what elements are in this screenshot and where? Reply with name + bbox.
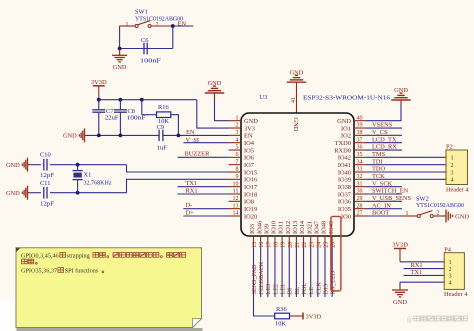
pin 18 IO10 (bottom) [271,221,280,248]
ground (C10) [6,158,29,172]
svg-text:D13: D13 [322,284,329,295]
svg-text:38: 38 [357,130,363,136]
net label TDO [366,166,444,173]
svg-text:IO7: IO7 [244,162,255,169]
wire/net LE3 (bottom col) [265,248,272,297]
svg-text:IO3: IO3 [249,224,256,234]
svg-text:39: 39 [357,123,363,129]
capacitor C6 [140,37,162,65]
pin 22 IO14 (bottom) [299,220,308,248]
pin 11 IO18 (left) [229,189,258,199]
pin 38 IO2 (right) [341,130,366,140]
net label VSENS [366,122,402,129]
svg-text:7: 7 [236,159,239,165]
svg-text:D-: D- [186,202,193,209]
svg-text:GND: GND [6,162,20,169]
wire SW1 loop [118,24,194,50]
pin 24 IO47 (bottom) [313,220,322,248]
svg-text:GND: GND [113,64,127,71]
svg-text:BOOT: BOOT [372,210,389,217]
svg-text:GPIO35,36,37: GPIO35,36,37 [21,268,57,275]
svg-text:IO13: IO13 [292,221,299,234]
svg-text:IO9: IO9 [263,224,270,234]
pin 40 GND (right) [337,115,366,125]
pin 8 IO15 (left) [229,167,258,177]
svg-text:25: 25 [324,242,330,248]
svg-text:34: 34 [357,159,363,165]
pin 15 IO3 (bottom) [249,224,258,248]
pin 20 IO12 (bottom) [285,221,294,248]
svg-text:GND: GND [455,213,469,220]
net label D- [183,202,228,209]
ground (SW2) [444,209,470,222]
svg-text:100nF: 100nF [140,58,162,65]
svg-text:IO19: IO19 [244,206,257,213]
svg-text:36: 36 [357,145,363,151]
svg-text:13: 13 [233,203,239,209]
wire/net BL (bottom col) [294,248,301,297]
svg-text:30: 30 [357,189,363,195]
svg-text:1: 1 [451,156,454,162]
svg-text:LE1: LE1 [280,284,287,295]
svg-text:24: 24 [316,242,322,248]
svg-text:15: 15 [252,242,258,248]
net label TX1 [178,180,229,187]
op-amp U3 ESP32-S3-WROOM-1U-N16 body [241,94,391,236]
svg-text:C10: C10 [40,152,51,159]
svg-text:12: 12 [233,196,239,202]
net label V_CS [366,129,402,136]
svg-text:IO21: IO21 [306,221,313,234]
capacitor C9 [157,124,168,152]
svg-text:GND: GND [6,190,20,197]
svg-text:IO6: IO6 [244,155,254,162]
svg-text:1: 1 [406,211,409,217]
pin 1 GND (left) [229,115,259,125]
pin 28 IO35 (right) [338,203,366,213]
svg-text:C9: C9 [157,124,164,131]
svg-text:U3: U3 [260,94,268,101]
capacitor C11 [40,180,54,208]
svg-text:14: 14 [233,211,239,217]
pin 14 IO20 (left) [229,211,258,221]
wire 3V3D rail [97,98,229,128]
net label TMS [366,151,444,158]
svg-text:P2: P2 [446,144,453,151]
svg-text:26: 26 [331,242,337,248]
ground (P4) [392,287,408,306]
svg-text:3V3D: 3V3D [306,313,322,320]
wire C11 row [29,179,229,194]
svg-text:12pF: 12pF [40,172,54,179]
svg-text:SPI functions: SPI functions [65,268,99,275]
svg-text:12pF: 12pF [40,201,54,208]
ground (SW1) [112,49,127,71]
net label TX1 (P4) [404,269,442,276]
svg-text:1: 1 [449,260,452,266]
pin 7 IO7 (left) [229,159,255,169]
svg-text:2: 2 [449,267,452,273]
svg-text:IO35: IO35 [338,206,351,213]
ground (EN rail) [63,128,86,142]
svg-text:GND: GND [337,118,351,125]
svg-text:BUZZER: BUZZER [185,151,211,158]
pin 29 IO36 (right) [338,196,366,206]
crystal X1 [73,165,112,193]
wire/net LE (bottom col) [308,248,315,297]
svg-text:37: 37 [357,137,363,143]
svg-text:IO10: IO10 [271,221,278,234]
svg-text:GND: GND [290,69,304,76]
net label LCD_TX [366,136,402,143]
pin 36 RXD0 (right) [334,145,366,155]
net label TCK [366,173,444,180]
pin 13 IO19 (left) [229,203,258,213]
pin 9 IO16 (left) [229,174,258,184]
power 3V3D (P4) [392,242,408,262]
svg-text:16: 16 [259,242,265,248]
svg-text:R36: R36 [276,306,287,313]
svg-text:IO14: IO14 [299,220,306,234]
wire/net CLK (bottom col) [315,248,322,297]
pin 27 IO0 (right) [341,211,366,221]
svg-text:IO18: IO18 [244,191,257,198]
svg-text:IO12: IO12 [285,221,292,234]
svg-text:IO42: IO42 [338,155,351,162]
pin 16 IO46 (bottom) [256,221,265,248]
svg-text:3: 3 [449,274,452,280]
svg-text:D+: D+ [186,209,195,216]
wire/net LE2 (bottom col) [272,248,279,297]
svg-text:3: 3 [451,170,454,176]
svg-text:RX1: RX1 [186,187,198,194]
wire P4 pin1 3V3D [400,261,442,263]
wire/net LE1 (bottom col) [280,248,287,297]
svg-text:3: 3 [236,130,239,136]
svg-text:1: 1 [236,115,239,121]
svg-text:4: 4 [451,178,454,184]
svg-text:2: 2 [451,163,454,169]
svg-text:2: 2 [156,22,159,28]
svg-text:GND: GND [208,80,222,87]
svg-text:IO36: IO36 [338,199,351,206]
svg-text:22uF: 22uF [105,115,119,122]
svg-text:TMS: TMS [372,151,386,158]
svg-text:V_USB_SENS: V_USB_SENS [372,195,412,202]
ground (pin41 top pad) [287,69,307,113]
net label SWITCH_EN [366,188,409,195]
svg-text:TX1: TX1 [186,180,198,187]
svg-text:IO41: IO41 [338,162,351,169]
ground (pin40) [366,87,411,121]
ground (pin1) [205,80,229,121]
svg-text:C11: C11 [40,180,50,187]
ground (C11) [6,186,29,200]
pin 19 IO11 (bottom) [278,221,287,248]
connector P2 Header 4 [443,144,469,194]
svg-text:100nF: 100nF [127,115,147,122]
switch SW1 [120,9,183,28]
wire/net DI (bottom col) [287,248,294,297]
pin 33 IO40 (right) [338,167,366,177]
capacitor C10 [40,152,54,179]
svg-text:22: 22 [302,242,308,248]
svg-text:strapping: strapping [67,253,90,260]
svg-text:GND: GND [244,118,258,125]
pin 12 IO8 (left) [229,196,254,206]
pin 21 IO13 (bottom) [292,221,301,248]
pin 2 3V3 (left) [229,123,256,133]
svg-text:5: 5 [236,145,239,151]
svg-text:32.768KHz: 32.768KHz [84,179,112,186]
svg-text:27: 27 [357,211,363,217]
svg-text:BL: BL [294,286,301,294]
pin 17 IO9 (bottom) [263,224,272,248]
pin 26 IO45 (bottom) [328,221,337,248]
svg-text:IO11: IO11 [278,221,285,234]
net label TDI [366,158,444,165]
svg-text:RXD0: RXD0 [334,147,351,154]
svg-text:41: 41 [291,97,297,103]
svg-text:3V3: 3V3 [244,125,255,132]
pin 6 IO6 (left) [229,152,254,162]
wire C10 row [29,163,229,172]
svg-text:CLK: CLK [315,282,322,295]
pin 30 IO37 (right) [338,189,366,199]
pin 4 IO4 (left) [229,137,255,147]
svg-text:VSENS: VSENS [372,122,393,129]
svg-text:9: 9 [236,174,239,180]
wire P4 pin4 GND [400,282,442,287]
net label RX1 [178,187,229,194]
net label AC_IN [366,202,402,209]
svg-text:POL: POL [301,283,308,295]
svg-text:35: 35 [357,152,363,158]
pin 3 EN (left) [229,130,253,140]
svg-text:DI: DI [287,288,294,295]
svg-text:LE: LE [308,287,315,295]
svg-text:IO37: IO37 [338,191,352,198]
svg-text:V_SCK: V_SCK [372,180,393,187]
svg-text:SENS_PAD: SENS_PAD [251,264,258,295]
pin 32 IO39 (right) [338,174,366,184]
svg-text:SW1: SW1 [135,9,148,16]
svg-text:@: @ [407,315,414,323]
svg-text:P4: P4 [444,247,452,254]
svg-text:2: 2 [437,210,440,216]
svg-text:C6: C6 [141,37,148,44]
svg-text:20: 20 [288,242,294,248]
svg-text:GND: GND [292,118,299,132]
svg-text:IO38: IO38 [338,184,351,191]
resistor R36 [275,306,303,327]
svg-text:18: 18 [274,242,280,248]
wire/net POL (bottom col) [301,248,308,297]
resistor R16 [142,100,179,136]
svg-text:EN: EN [186,129,195,136]
svg-text:IO17: IO17 [244,184,258,191]
note box (yellow) [16,248,203,331]
svg-text:IO8: IO8 [244,199,254,206]
svg-text:R16: R16 [158,104,169,111]
svg-text:IO40: IO40 [338,169,351,176]
net label LCD_RX [366,144,402,151]
watermark [407,315,468,323]
power 3V3D (rail) [91,79,107,100]
svg-text:11: 11 [233,189,239,195]
svg-text:8: 8 [236,167,239,173]
net label D+ [183,209,228,216]
svg-text:IO2: IO2 [341,133,351,140]
pin 31 IO38 (right) [338,181,366,191]
svg-text:IO15: IO15 [244,169,257,176]
svg-text:EN: EN [178,21,187,28]
note text [21,253,186,275]
svg-text:GND: GND [63,133,77,140]
svg-text:IO48: IO48 [321,221,328,234]
svg-text:IO1: IO1 [341,125,351,132]
svg-text:31: 31 [357,181,363,187]
svg-text:2: 2 [236,123,239,129]
svg-text:28: 28 [357,203,363,209]
pin 25 IO48 (bottom) [321,221,330,248]
net label V_SCK [366,180,402,187]
svg-text:IO4: IO4 [244,140,255,147]
svg-text:IO16: IO16 [244,177,257,184]
svg-text:ESP32-S3-WROOM-1U-N16: ESP32-S3-WROOM-1U-N16 [303,94,391,101]
svg-text:3V3D: 3V3D [91,79,107,86]
pin 23 IO21 (bottom) [306,221,315,248]
svg-text:Header 4: Header 4 [444,291,468,298]
pin 10 IO17 (left) [229,181,258,191]
net label BOOT [366,210,402,217]
svg-text:IO46: IO46 [256,221,263,234]
net label RX1 (P4) [404,262,442,269]
svg-text:3V3D: 3V3D [392,242,408,249]
highlight box RX_LED/IO45 [331,216,341,291]
svg-text:EN: EN [244,133,253,140]
svg-text:SWITCH_EN: SWITCH_EN [372,188,409,195]
svg-text:IO5: IO5 [244,147,254,154]
pin 34 IO41 (right) [338,159,366,169]
svg-text:YTS1C0192ABG00: YTS1C0192ABG00 [416,202,464,209]
svg-text:IO0: IO0 [341,213,351,220]
svg-text:GND: GND [394,87,408,94]
pin 35 IO42 (right) [338,152,366,162]
svg-text:TDO: TDO [372,166,386,173]
svg-text:TXD0: TXD0 [335,140,351,147]
svg-text:23: 23 [309,242,315,248]
net label V_SI [183,137,228,144]
svg-text:IO39: IO39 [338,177,351,184]
svg-text:YTS1C0192ABG00: YTS1C0192ABG00 [135,16,183,23]
pin 37 TXD0 (right) [335,137,366,147]
svg-text:V_CS: V_CS [372,129,388,136]
svg-text:10: 10 [233,181,239,187]
pin 5 IO5 (left) [229,145,254,155]
svg-text:IO20: IO20 [244,213,257,220]
svg-text:21: 21 [295,242,301,248]
svg-text:19: 19 [281,242,287,248]
svg-text:6: 6 [236,152,239,158]
wire/net FEEDBACK (bottom col) [258,248,265,297]
svg-text:GPIO0,3,45,46: GPIO0,3,45,46 [21,253,59,260]
svg-text:4: 4 [236,137,239,143]
svg-text:IO47: IO47 [313,220,320,234]
white margin strip bottom-left [0,300,14,331]
capacitor C8 [114,100,146,136]
svg-text:LE2: LE2 [272,284,279,295]
wire/net SENS_PAD (bottom col) [251,248,275,316]
wire/net D13 (bottom col) [322,248,329,297]
svg-text:TDI: TDI [372,158,383,165]
svg-text:10K: 10K [275,320,286,327]
svg-text:4: 4 [449,281,452,287]
switch SW2 [402,195,464,217]
svg-text:32: 32 [357,174,363,180]
svg-text:LCD_TX: LCD_TX [372,136,397,143]
svg-text:17: 17 [266,242,272,248]
wire/net RX_LED (bottom col) [330,248,337,297]
svg-text:1uF: 1uF [157,144,168,151]
pin 39 IO1 (right) [341,123,366,133]
svg-text:33: 33 [357,167,363,173]
svg-text:29: 29 [357,196,363,202]
svg-text:FEEDBACK: FEEDBACK [258,261,265,294]
power 3V3D (R36) [303,313,322,321]
svg-text:LCD_RX: LCD_RX [372,144,397,151]
svg-text:LE3: LE3 [265,284,272,295]
svg-text:Header 4: Header 4 [446,186,469,193]
capacitor C7 [92,100,119,136]
svg-text:X1: X1 [84,172,92,179]
svg-text:AC_IN: AC_IN [372,202,391,209]
svg-text:TCK: TCK [372,173,385,180]
wire GND-C9-EN rail [86,134,229,138]
net label V_USB_SENS [366,195,412,202]
net label BUZZER [178,151,229,158]
svg-text:1: 1 [126,22,129,28]
connector P4 Header 4 [441,247,468,298]
svg-text:40: 40 [357,115,363,121]
svg-text:GND: GND [393,299,408,306]
